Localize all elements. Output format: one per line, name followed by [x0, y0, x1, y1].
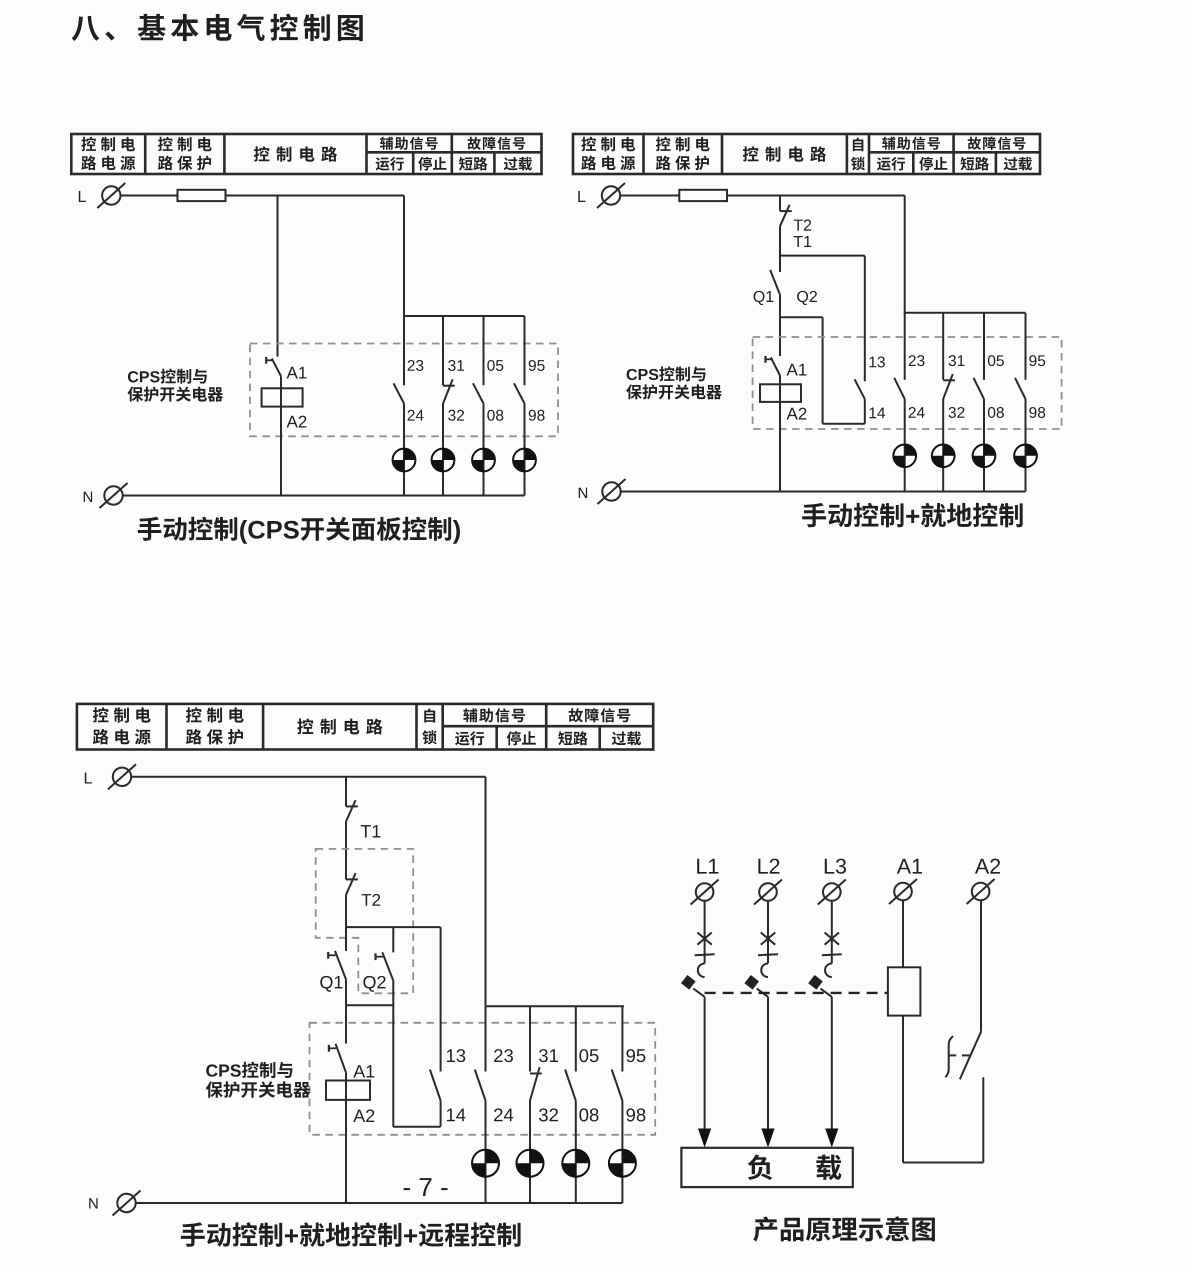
label CPS控制与 保护开关电器 (bottom-left) — [206, 1062, 310, 1098]
table header top-left: column texts — [81, 137, 532, 171]
label 32 (top-left) — [448, 410, 464, 421]
table header bottom-left: column texts — [93, 707, 641, 745]
contact 05/08 (top-left) with wire — [473, 316, 484, 496]
wire N rail (bottom-left) — [136, 1202, 623, 1204]
dashed box CPS (top-right) — [753, 337, 1062, 429]
label 08 (bottom-left) — [579, 1108, 598, 1121]
wire: A1 to coil (principle) — [902, 900, 904, 967]
label 14 (bottom-left) — [447, 1109, 466, 1122]
contact Q1 (top-right) — [770, 270, 780, 295]
terminal N (top-left) — [84, 483, 128, 508]
contact 05/08 (top-right) with wire — [974, 313, 985, 492]
wire: T1 to junction (top-right) — [779, 226, 781, 272]
label 31 (bottom-left) — [539, 1049, 558, 1062]
wire: main to CPS contact (bottom-left) — [345, 1005, 347, 1043]
wire: Q2 branch top (bottom-left) — [392, 927, 394, 952]
wire: Q1 bottom (bottom-left) — [345, 979, 347, 1005]
dashed box CPS (top-left) — [250, 344, 558, 437]
wire: coil feed (bottom-left) — [345, 1073, 347, 1204]
lamp under 98 (bottom-left) — [609, 1150, 636, 1177]
wire: junction to 13 branch (top-right) — [780, 255, 865, 257]
label Q2 (top-right) — [797, 291, 817, 305]
terminal L (top-left) — [79, 183, 125, 208]
label CPS控制与 保护开关电器 (top-left) — [128, 369, 224, 402]
contact 13/14 (top-right) — [855, 379, 865, 423]
contact CPS A1 (manual, top-right) — [766, 356, 781, 376]
lamp under 24 (top-right) — [893, 444, 916, 467]
wire: remote feed drop (bottom-left) — [485, 777, 487, 1006]
terminal A2 (principle) — [967, 879, 995, 904]
label 32 (top-right) — [949, 407, 965, 418]
lamp under 32 (top-left) — [432, 449, 455, 472]
contact 31/32 (top-left) with wire — [443, 316, 455, 496]
lamp under 32 (top-right) — [932, 444, 955, 467]
terminal L2 (principle) — [754, 880, 782, 905]
wire: trip contact bottom terminal (principle) — [982, 1077, 984, 1162]
contact Q2 (manual, bottom-left) — [376, 952, 394, 980]
wire: signal bus (bottom-left) — [486, 1005, 625, 1007]
fuse FU (top-right) — [679, 190, 727, 201]
fuse FU (top-left) — [178, 190, 226, 201]
wire: 14 bottom (bottom-left) — [440, 1101, 442, 1127]
wire: T2 to junction A (bottom-left) — [345, 895, 347, 927]
wire L rail (bottom-left) — [131, 776, 485, 778]
dashed box around T2 and Q2 (bottom-left) — [316, 849, 414, 993]
label L2 (principle) — [758, 859, 779, 874]
wire N rail (top-left) — [123, 495, 525, 497]
label Q2 (bottom-left) — [363, 976, 385, 992]
caption 产品原理示意图 — [753, 1216, 935, 1241]
caption 手动控制(CPS开关面板控制) — [138, 517, 460, 544]
label 05 (top-right) — [988, 355, 1004, 366]
breaker pole L3 with trip and arrow (principle) — [808, 901, 842, 1148]
dashed mechanical linkage (principle) — [705, 992, 888, 994]
table header top-left: grid — [71, 134, 541, 174]
caption 手动控制+就地控制+远程控制 — [181, 1222, 521, 1247]
terminal L1 (principle) — [691, 880, 719, 905]
label Q1 (top-right) — [754, 291, 774, 305]
wire: coil feed (top-right) — [779, 376, 781, 492]
table header bottom-left: grid — [77, 704, 653, 750]
wire: Q2 branch vertical (top-right) — [822, 317, 824, 423]
wire: coil to bottom (principle) — [902, 1016, 904, 1163]
label CPS控制与 保护开关电器 (top-right) — [626, 366, 722, 399]
contact 23/24 (top-left) with wire — [394, 316, 405, 496]
label 23 (bottom-left) — [494, 1049, 513, 1062]
label 98 (top-right) — [1029, 407, 1045, 418]
label 14 (top-right) — [869, 408, 885, 419]
label 23 (top-left) — [408, 360, 424, 371]
coil A1-A2 (top-right) — [760, 384, 801, 402]
label L3 (principle) — [825, 859, 846, 874]
wire: Q2 branch bottom (top-right) — [823, 423, 865, 425]
lamp under 08 (top-left) — [472, 449, 495, 472]
contact Q1 (manual, bottom-left) — [328, 951, 346, 980]
contact 95/98 (bottom-left) with wire — [612, 1006, 623, 1203]
wire: 13 feed vertical (top-right) — [864, 256, 866, 382]
lamp under 98 (top-left) — [513, 449, 536, 472]
terminal N (top-right) — [579, 479, 626, 504]
label 31 (top-right) — [949, 355, 965, 366]
label 负 载 (principle) — [748, 1155, 842, 1181]
coil box (principle) — [888, 967, 921, 1015]
wire: signal bus (top-left) — [403, 315, 525, 317]
contact T2/T1 (NC, top-right) — [780, 205, 792, 226]
breaker pole L1 with trip and arrow (principle) — [681, 901, 715, 1148]
label T1 (top-right) — [794, 236, 812, 247]
contact 13/14 (bottom-left) — [430, 1070, 441, 1101]
page number - 7 - — [404, 1178, 448, 1196]
breaker pole L2 with trip and arrow (principle) — [744, 901, 778, 1148]
contact 23/24 (bottom-left) with wire — [475, 1006, 486, 1203]
lamp under 24 (top-left) — [393, 449, 416, 472]
wire: latch bottom horizontal (bottom-left) — [393, 1126, 440, 1128]
wire: junction B horizontal (bottom-left) — [346, 1004, 393, 1006]
contact 23/24 (top-right) with wire — [894, 313, 905, 492]
label 05 (top-left) — [487, 360, 503, 371]
page title 八、基本电气控制图 — [72, 14, 363, 41]
contact T1 (NC, bottom-left) — [346, 800, 358, 821]
load box 负载 (principle) — [681, 1148, 852, 1187]
contact 95/98 (top-right) with wire — [1015, 313, 1026, 492]
wire: main drop to T1 (bottom-left) — [345, 777, 347, 807]
label 08 (top-left) — [487, 410, 503, 421]
contact CPS A1 (manual, bottom-left) — [329, 1044, 346, 1073]
label T2 (bottom-left) — [362, 894, 381, 906]
terminal N (bottom-left) — [89, 1191, 140, 1216]
contact 31/32 (top-right) with wire — [943, 313, 955, 492]
wire: signal bus (top-right) — [904, 312, 1026, 314]
terminal A1 (principle) — [889, 879, 917, 904]
label T1 (bottom-left) — [361, 825, 381, 837]
label 13 (top-right) — [869, 356, 884, 367]
wire: branch to CPS coil (top-left) — [277, 196, 279, 357]
coil A1-A2 (bottom-left) — [326, 1081, 370, 1100]
label 95 (top-right) — [1029, 355, 1045, 366]
wire L rail (top-left) — [121, 195, 405, 197]
label 98 (bottom-left) — [626, 1108, 645, 1121]
wire: signal feed drop (top-right) — [904, 196, 906, 313]
label A1 (top-left) — [287, 367, 307, 379]
terminal L (top-right) — [578, 183, 625, 208]
label A2 (top-left) — [287, 416, 307, 428]
label A1 (principle) — [897, 859, 922, 874]
contact 95/98 (top-left) with wire — [514, 316, 525, 496]
lamp under 08 (top-right) — [973, 444, 996, 467]
wire N rail (top-right) — [621, 491, 1026, 493]
label 24 (top-left) — [408, 410, 424, 421]
table header top-right: column texts — [581, 137, 1032, 171]
label A2 (principle) — [975, 859, 1000, 874]
label 24 (bottom-left) — [494, 1108, 513, 1121]
contact CPS A1 (manual, top-left) — [266, 357, 281, 376]
wire: branch to signal bus (top-left) — [403, 196, 405, 317]
label 13 (bottom-left) — [447, 1049, 465, 1062]
coil A1-A2 (top-left) — [262, 388, 303, 406]
lamp under 32 (bottom-left) — [517, 1150, 544, 1177]
trip contact blade (principle) — [960, 1032, 981, 1080]
label 05 (bottom-left) — [579, 1049, 598, 1062]
label A1 (top-right) — [787, 364, 807, 376]
label 32 (bottom-left) — [539, 1108, 558, 1121]
lamp under 24 (bottom-left) — [472, 1150, 499, 1177]
trip mechanism marks (principle) — [945, 1036, 970, 1077]
contact T2 (NC, bottom-left) — [346, 873, 358, 895]
label L1 (principle) — [697, 859, 718, 874]
wire: junction to Q2 branch (top-right) — [780, 316, 823, 318]
wire: 13 feed vertical (bottom-left) — [440, 927, 442, 1071]
wire: Q1 to CPS (top-right) — [779, 295, 781, 356]
wire: junction A horizontal (bottom-left) — [346, 926, 441, 928]
label A2 (top-right) — [787, 408, 807, 420]
label T2 (top-right) — [794, 219, 812, 230]
terminal L3 (principle) — [818, 880, 846, 905]
label 98 (top-left) — [529, 410, 545, 421]
contact 31/32 (bottom-left) with wire — [530, 1006, 542, 1203]
wire: coil feed (top-left) — [280, 376, 282, 495]
wire: main drop to T2 (top-right) — [779, 196, 781, 212]
wire: A2 drop (principle) — [980, 900, 982, 1032]
label 95 (top-left) — [529, 360, 545, 371]
wire: Q1 top (bottom-left) — [345, 927, 347, 951]
label 23 (top-right) — [909, 355, 925, 366]
label A1 (bottom-left) — [353, 1065, 374, 1077]
label Q1 (bottom-left) — [320, 976, 342, 992]
dashed box CPS (bottom-left) — [310, 1023, 656, 1135]
table header top-right: grid — [573, 134, 1040, 174]
wire: bottom horizontal (principle) — [903, 1162, 983, 1164]
lamp under 08 (bottom-left) — [562, 1150, 589, 1177]
label 24 (top-right) — [909, 407, 925, 418]
terminal L (bottom-left) — [85, 764, 136, 789]
wire: T1 to T2 (bottom-left) — [345, 822, 347, 880]
lamp under 98 (top-right) — [1014, 444, 1037, 467]
wire: latch vertical (bottom-left) — [392, 1005, 394, 1126]
label 95 (bottom-left) — [626, 1049, 645, 1062]
contact 05/08 (bottom-left) with wire — [565, 1006, 576, 1203]
caption 手动控制+就地控制 — [802, 503, 1022, 528]
label A2 (bottom-left) — [353, 1109, 374, 1122]
wire L rail (top-right) — [620, 195, 905, 197]
label 08 (top-right) — [988, 407, 1004, 418]
label 31 (top-left) — [448, 360, 464, 371]
wire: Q2 bottom (bottom-left) — [392, 981, 394, 1006]
